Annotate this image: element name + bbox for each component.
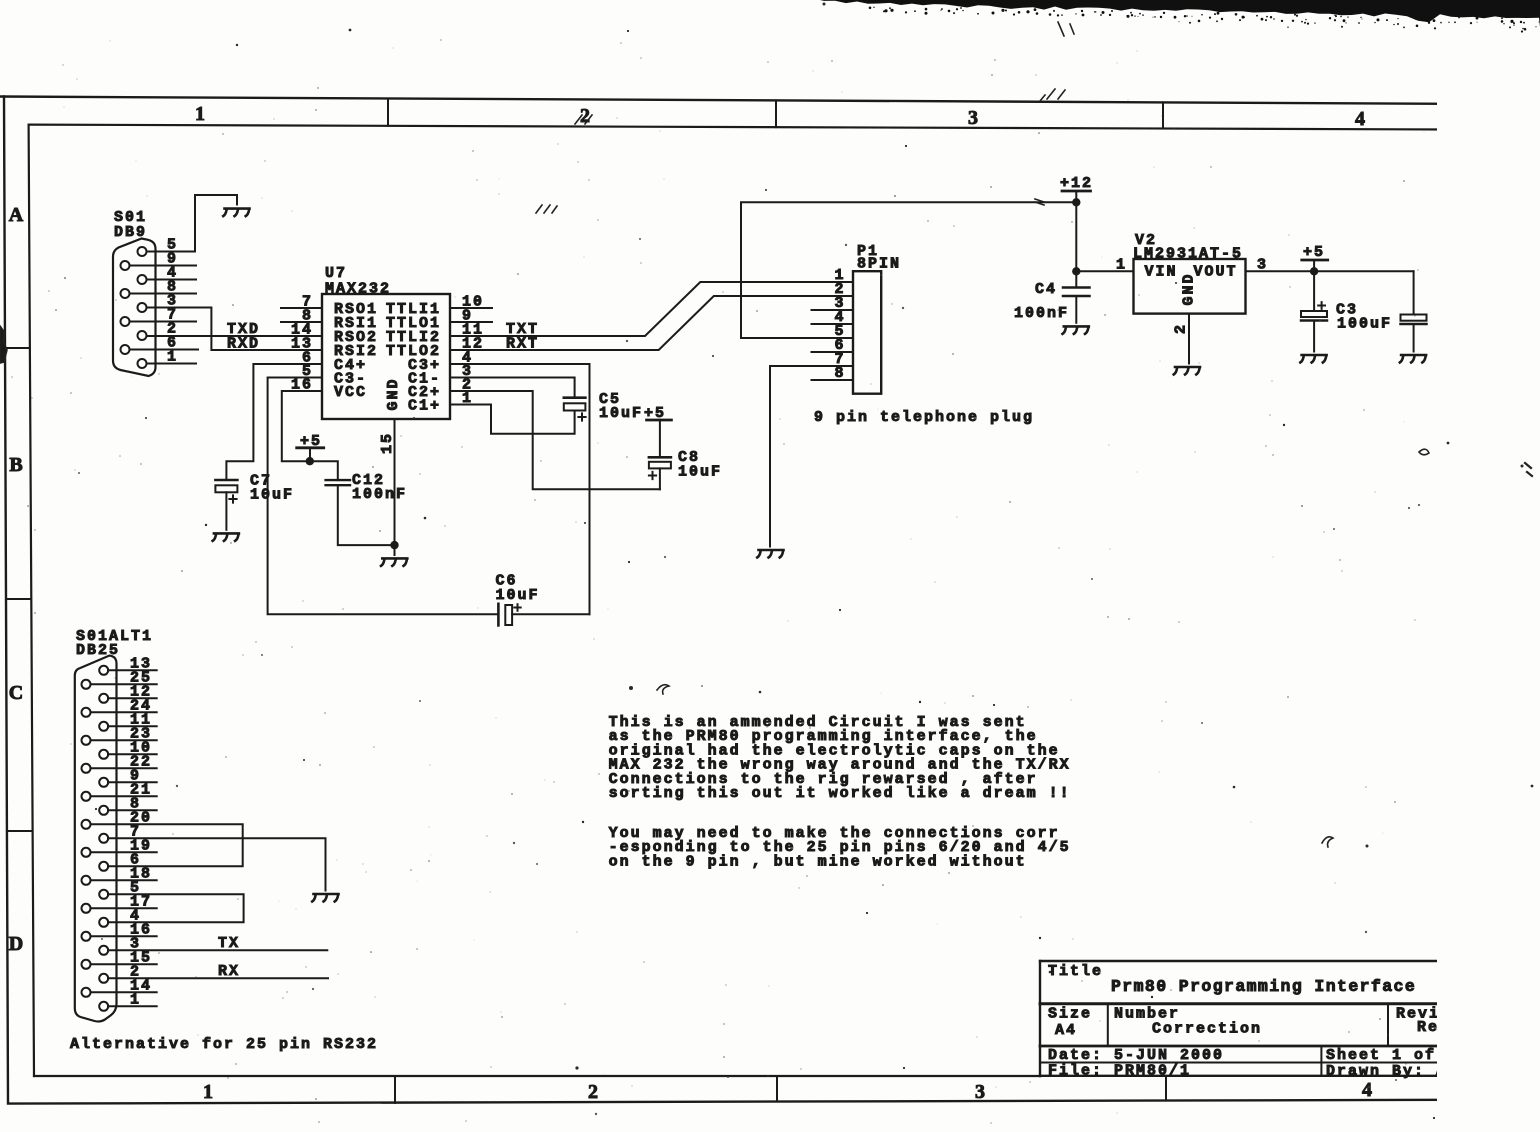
wire U7 pin2 to C8 bottom <box>450 391 660 489</box>
wire RXD (DB9 pin3 to U7 pin13) <box>147 308 323 351</box>
P1 pin 3 stub <box>812 309 854 311</box>
svg-text:File: PRM80/1: File: PRM80/1 <box>1048 1063 1191 1080</box>
node pin15/C12 ground junction <box>390 541 398 549</box>
svg-text:Date: 5-JUN 2000: Date: 5-JUN 2000 <box>1048 1047 1224 1064</box>
wire C5 bottom to U7 pin1 <box>450 405 575 434</box>
ground near S01 <box>223 209 249 217</box>
svg-text:C: C <box>9 682 23 704</box>
wire RX (DB25 pin2) <box>108 977 328 979</box>
wire C4 to ground <box>1075 296 1077 323</box>
P1 pin 8 stub <box>812 379 854 381</box>
svg-text:1: 1 <box>130 991 141 1008</box>
U7 pin 9 stub <box>450 321 492 323</box>
svg-text:A: A <box>9 204 24 226</box>
svg-text:Title: Title <box>1048 963 1103 980</box>
svg-text:VIN: VIN <box>1145 264 1178 281</box>
wire DB9 pin5 to ground <box>147 195 238 252</box>
svg-text:GND: GND <box>385 377 402 410</box>
svg-text:C1+: C1+ <box>408 398 441 415</box>
svg-text:100nF: 100nF <box>352 486 407 503</box>
svg-text:B: B <box>9 454 22 476</box>
svg-text:3: 3 <box>975 1081 985 1103</box>
svg-text:+5: +5 <box>1303 244 1325 261</box>
wire VOUT to +5 rail <box>1246 270 1414 272</box>
node +5 output junction <box>1310 267 1318 275</box>
S01ALT1 pin wires and pin numbers <box>91 655 157 1008</box>
svg-text:Correction: Correction <box>1152 1021 1262 1038</box>
svg-text:sorting this out it worked lik: sorting this out it worked like a dream … <box>609 785 1071 802</box>
svg-text:C4: C4 <box>1035 281 1057 298</box>
svg-text:2: 2 <box>1173 323 1190 334</box>
wire U7 pin6/C4+ to C7 <box>226 364 322 480</box>
svg-text:10uF: 10uF <box>599 405 643 422</box>
svg-text:10uF: 10uF <box>250 487 294 504</box>
wire C6 rail (U7 pin5/C3- to C6) <box>268 378 499 615</box>
wire TX (DB25 pin3) <box>108 949 327 951</box>
ground below output cap <box>1400 355 1426 363</box>
svg-text:10uF: 10uF <box>678 464 722 481</box>
ground below P1 <box>757 550 783 558</box>
capacitor C12 <box>326 472 407 503</box>
svg-text:Re: Re <box>1417 1019 1439 1036</box>
svg-text:on the 9 pin , but mine worked: on the 9 pin , but mine worked without <box>609 853 1027 870</box>
svg-text:RXD: RXD <box>227 336 260 353</box>
svg-text:A4: A4 <box>1055 1022 1077 1039</box>
svg-text:2: 2 <box>588 1081 598 1103</box>
svg-text:Size: Size <box>1048 1006 1092 1023</box>
svg-text:VOUT: VOUT <box>1193 264 1237 281</box>
wire TXT (U7 pin11 to P1 pin1) <box>450 282 853 336</box>
svg-text:1: 1 <box>203 1081 213 1103</box>
P1 pin 6 stub <box>812 351 854 353</box>
ground DB25 pin7 <box>312 894 338 902</box>
node +5/VCC junction <box>306 457 314 465</box>
IC U7 MAX232 <box>291 265 484 419</box>
wire to V2 VIN <box>1076 270 1133 272</box>
capacitor C5 <box>564 391 643 422</box>
svg-text:VCC: VCC <box>334 384 367 401</box>
wire +12 rail to P1 pin5 <box>741 202 1076 338</box>
wire DB25 pin7 to ground <box>108 838 326 890</box>
wire C3 to ground <box>1313 321 1315 352</box>
capacitor C8 <box>649 420 722 489</box>
svg-text:100nF: 100nF <box>1014 305 1069 322</box>
svg-text:D: D <box>9 933 23 955</box>
svg-text:9 pin telephone plug: 9 pin telephone plug <box>814 409 1034 426</box>
connector S01ALT1 DB25 <box>75 628 153 1022</box>
svg-text:1: 1 <box>195 103 205 125</box>
scanner noise <box>820 0 1540 33</box>
wire P1 pin7 to ground <box>770 366 853 547</box>
svg-text:10uF: 10uF <box>496 587 540 604</box>
P1 pin 4 stub <box>812 323 854 325</box>
power +5 near U7 <box>297 433 324 461</box>
wire DB25 pins 20-6 link <box>91 824 243 866</box>
svg-text:RX: RX <box>218 963 240 980</box>
U7 pin 15 wire <box>394 419 396 545</box>
capacitor C6 <box>496 573 590 626</box>
svg-text:RXT: RXT <box>506 336 539 353</box>
capacitor C7 <box>215 473 294 504</box>
svg-text:Prm80 Programming Interface: Prm80 Programming Interface <box>1111 977 1416 996</box>
ground below C7 <box>213 533 239 541</box>
wire U7 pin16/VCC to +5 node <box>282 391 338 480</box>
ground below C4 <box>1063 326 1089 334</box>
connector P1 8PIN <box>834 243 901 394</box>
connector S01 DB9 <box>113 209 156 376</box>
svg-text:3: 3 <box>968 107 978 129</box>
capacitor C3 <box>1301 271 1392 332</box>
svg-text:+12: +12 <box>1060 175 1093 192</box>
svg-text:U7: U7 <box>325 265 347 282</box>
ground below V2 <box>1174 367 1200 375</box>
wire DB25 pins 5-4 link <box>108 894 244 922</box>
svg-text:Sheet 1 of: Sheet 1 of <box>1326 1047 1436 1064</box>
svg-text:Alternative for 25 pin RS232: Alternative for 25 pin RS232 <box>70 1036 378 1053</box>
wire C12 to ground junction <box>338 485 395 545</box>
wire U7 pin4 to C6 <box>450 364 590 614</box>
svg-text:Drawn By: A: Drawn By: A <box>1326 1063 1447 1080</box>
wire C7 to ground <box>225 492 227 530</box>
ground below C3 <box>1300 355 1326 363</box>
U7 pin 10 stub <box>450 307 492 309</box>
svg-text:TX: TX <box>218 935 240 952</box>
power +5 above C8 <box>644 405 671 422</box>
svg-text:100uF: 100uF <box>1337 316 1392 333</box>
svg-text:4: 4 <box>1362 1079 1372 1101</box>
node +12 rail junction <box>1072 198 1080 206</box>
wire junction to ground <box>394 545 396 555</box>
U7 pin 7 stub <box>281 307 322 309</box>
U7 pin 8 stub <box>281 321 322 323</box>
svg-text:4: 4 <box>1355 108 1365 130</box>
svg-text:GND: GND <box>1181 272 1198 305</box>
node VIN junction <box>1072 267 1080 275</box>
note paragraph 2 <box>609 825 1071 870</box>
capacitor C4 <box>1014 281 1090 322</box>
power +5 at regulator output <box>1302 244 1328 271</box>
ground below U7 pin15 <box>381 558 407 566</box>
svg-text:8PIN: 8PIN <box>857 256 901 273</box>
svg-text:3: 3 <box>1257 257 1268 274</box>
wire V2 GND pin2 to ground <box>1188 314 1190 364</box>
wire RXT (U7 pin12 to P1 pin2) <box>450 296 853 350</box>
note paragraph 1 <box>609 714 1071 802</box>
title block <box>1040 961 1447 1076</box>
wire U7 pin3 to C5 top <box>450 378 575 398</box>
capacitor (output electrolytic, right) <box>1401 271 1427 351</box>
S01 pin wires and pin numbers <box>130 237 199 366</box>
power +12 <box>1060 175 1093 288</box>
svg-text:1: 1 <box>1116 257 1127 274</box>
wire TXD (DB9 pin2 to U7 pin14) <box>147 335 323 337</box>
regulator V2 LM2931AT-5 <box>1133 232 1246 314</box>
svg-text:15: 15 <box>379 432 396 454</box>
svg-text:1: 1 <box>167 349 178 366</box>
